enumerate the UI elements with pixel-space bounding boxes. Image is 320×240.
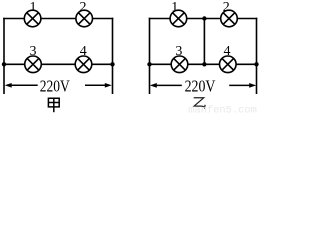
wire middle rail (yi) xyxy=(149,63,258,65)
svg-text:4: 4 xyxy=(224,44,231,59)
junction dot right middle (jia) xyxy=(110,62,114,66)
lamp L4 (yi) xyxy=(220,56,237,73)
svg-text:3: 3 xyxy=(175,44,182,59)
junction dot center middle (yi) xyxy=(202,62,206,66)
voltage arrow left segment (yi) xyxy=(150,83,182,88)
lamp L2 (yi) xyxy=(221,10,238,27)
voltage arrow right segment (yi) xyxy=(229,83,256,88)
lamp L1 (yi) xyxy=(170,10,187,27)
wire left vertical (jia) xyxy=(3,18,5,94)
junction dot top middle (yi) xyxy=(202,16,206,20)
wire right vertical (yi) xyxy=(256,18,258,94)
wire right vertical (jia) xyxy=(112,18,114,94)
svg-text:1: 1 xyxy=(171,0,178,15)
svg-text:2: 2 xyxy=(223,0,230,15)
wire left vertical (yi) xyxy=(149,18,151,94)
voltage arrow right segment (jia) xyxy=(85,83,112,88)
svg-text:220V: 220V xyxy=(185,77,216,96)
svg-text:3: 3 xyxy=(30,44,37,59)
lamp L3 (jia) xyxy=(25,56,42,73)
label yi (乙) drawn as strokes xyxy=(194,98,206,108)
lamp L3 (yi) xyxy=(171,56,188,73)
wire middle vertical (yi) xyxy=(203,19,205,65)
svg-text:manfen5.com: manfen5.com xyxy=(188,105,256,115)
svg-text:4: 4 xyxy=(80,44,87,59)
junction dot left middle (jia) xyxy=(2,62,6,66)
lamp L2 (jia) xyxy=(76,10,93,27)
svg-text:220V: 220V xyxy=(40,77,70,96)
wire top rail (jia) xyxy=(3,18,113,20)
lamp L1 (jia) xyxy=(24,10,41,27)
wire top rail (yi) xyxy=(149,18,258,20)
wire middle rail (jia) xyxy=(3,63,113,65)
junction dot left middle (yi) xyxy=(147,62,151,66)
svg-text:1: 1 xyxy=(30,0,37,15)
lamp L4 (jia) xyxy=(75,56,92,73)
voltage arrow left segment (jia) xyxy=(5,83,38,88)
junction dot right middle (yi) xyxy=(254,62,258,66)
label jia (甲) drawn as strokes xyxy=(48,98,59,112)
svg-text:2: 2 xyxy=(80,0,87,15)
